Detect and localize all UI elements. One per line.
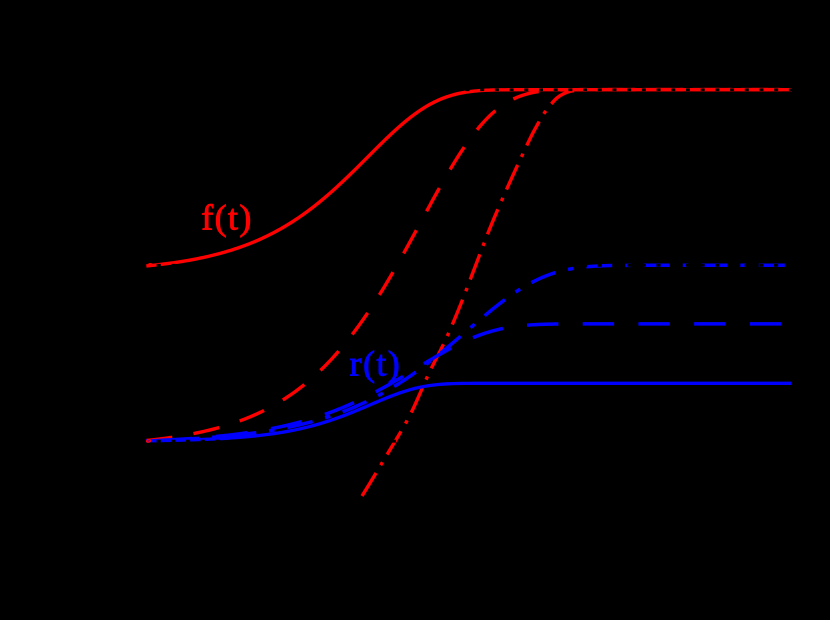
svg-text:r(t): r(t) [350,344,402,384]
curve f(t) solid red [146,90,792,266]
curve blue dash-dot (right-to-left) [146,265,785,441]
start curl cluster [146,439,150,442]
black dotted asymptote bottom [147,440,793,443]
curve red dash-dot [362,90,790,496]
curve blue dashed (right-to-left for phase) [146,324,781,441]
black dotted asymptote top [147,88,793,91]
curve r(t) solid blue [146,383,792,441]
curve red dashed [146,90,790,441]
svg-text:f(t): f(t) [201,198,253,238]
start curl red solid [148,263,152,266]
black dotted asymptote middle [147,264,793,267]
